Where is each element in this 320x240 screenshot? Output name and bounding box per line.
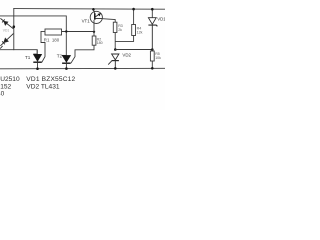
wire bridge minus to T1 anode bbox=[0, 50, 37, 55]
thyristor T1 bbox=[33, 50, 42, 69]
thyristor T2 bbox=[62, 55, 71, 68]
wire bottom rail bbox=[0, 67, 165, 70]
node base junction bbox=[93, 31, 95, 33]
svg-text:VD2: VD2 bbox=[122, 53, 131, 58]
svg-text:T1: T1 bbox=[25, 55, 31, 60]
wire R5 bottom to rail bbox=[151, 61, 153, 68]
wire VD1 branch from top rail bbox=[151, 9, 153, 18]
wire left vertical from rail to bottom node bbox=[13, 9, 15, 50]
node R1/T2-anode junction bbox=[65, 30, 67, 32]
wire VD2 node to R5 node bbox=[115, 49, 152, 51]
wire R1 right lead to base node bbox=[62, 31, 95, 33]
node T2 cathode on bottom rail bbox=[65, 67, 68, 70]
svg-text:180: 180 bbox=[97, 41, 103, 45]
node collector on top rail bbox=[92, 8, 95, 11]
wire T2 gate to R2 bottom bbox=[71, 45, 94, 63]
bridge diode VD4 (lower arm) bbox=[0, 34, 13, 49]
node VD1 top on rail bbox=[151, 8, 154, 11]
node T1 cathode on bottom rail bbox=[36, 67, 39, 70]
wire base lead down to R2 bbox=[93, 20, 95, 36]
bridge diode VD3 (upper arm) bbox=[0, 18, 13, 28]
wire R4 branch from top rail bbox=[133, 9, 135, 24]
svg-text:R1 180: R1 180 bbox=[44, 37, 60, 42]
svg-text:VD1 BZX55C12: VD1 BZX55C12 bbox=[26, 76, 75, 83]
regulator VD2 TL431 bbox=[108, 54, 119, 68]
resistor R4 bbox=[132, 25, 136, 36]
wire top rail bbox=[14, 8, 165, 11]
svg-text:VD2 TL431: VD2 TL431 bbox=[26, 83, 60, 90]
resistor R1 bbox=[45, 29, 62, 35]
svg-text:VT1: VT1 bbox=[82, 19, 91, 24]
resistor R2 (base) bbox=[92, 36, 96, 45]
svg-text:VD1: VD1 bbox=[3, 29, 10, 33]
svg-text:2k: 2k bbox=[118, 28, 122, 32]
caption text block bbox=[0, 76, 76, 97]
node bridge output junction bbox=[13, 25, 16, 28]
resistor R3 (emitter) bbox=[113, 22, 117, 32]
svg-text:40: 40 bbox=[0, 91, 5, 98]
svg-text:10k: 10k bbox=[155, 56, 161, 60]
svg-text:VD1: VD1 bbox=[157, 16, 165, 21]
wire R1 left lead to T1 gate bbox=[41, 31, 45, 62]
node R5 bottom on rail bbox=[151, 67, 154, 70]
node VD2 top bbox=[114, 48, 117, 51]
svg-text:12k: 12k bbox=[137, 31, 143, 35]
zener VD1 bbox=[148, 18, 157, 51]
node R5 top bbox=[151, 48, 154, 51]
transistor VT1 bbox=[90, 9, 102, 23]
svg-text:152: 152 bbox=[0, 83, 11, 90]
node VD2 anode on bottom rail bbox=[114, 67, 117, 70]
wire emitter to R3 bbox=[102, 19, 115, 23]
wire R4 bottom link to VD2 branch bbox=[115, 36, 133, 42]
wire AC input line y=16 to T2 anode bbox=[0, 16, 66, 56]
svg-text:T2: T2 bbox=[57, 53, 63, 58]
wire R3 bottom to VD2 node bbox=[114, 33, 116, 50]
svg-text:U2510: U2510 bbox=[0, 76, 20, 83]
resistor R5 bbox=[150, 51, 154, 61]
node R4 top on rail bbox=[132, 8, 135, 11]
